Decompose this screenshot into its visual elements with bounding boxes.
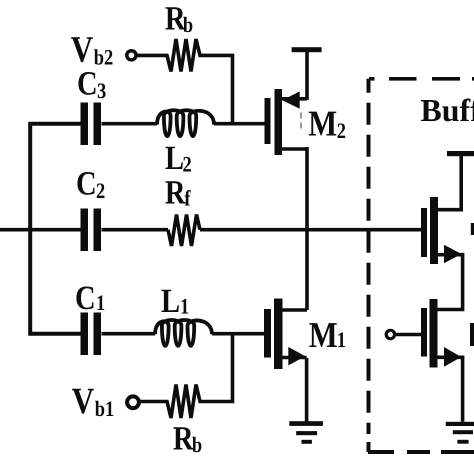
svg-text:Buffer: Buffer [420, 92, 474, 128]
